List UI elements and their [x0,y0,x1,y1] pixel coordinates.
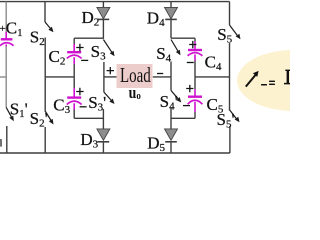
svg-text:+: + [0,23,6,35]
svg-text:S3': S3' [88,93,106,114]
svg-text:S4': S4' [160,92,178,113]
svg-text:S1': S1' [10,100,28,121]
svg-text:S2': S2' [30,109,48,130]
